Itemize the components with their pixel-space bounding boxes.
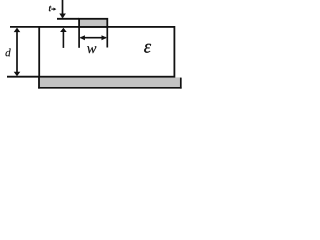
w dimension right extension line (strip right edge continued): [106, 27, 108, 48]
strip-top extension line (for t dimension): [57, 18, 79, 20]
w dimension left extension line (strip left edge continued): [78, 27, 80, 48]
d dimension line with arrows: [14, 28, 21, 77]
t dimension lower arrow (points up at strip bottom): [60, 28, 67, 48]
label w: [87, 46, 96, 53]
w dimension double arrow: [80, 35, 107, 40]
ground plane (gray bar): [38, 77, 181, 89]
substrate-bottom extension line to the left (for d dimension): [7, 76, 39, 78]
t dimension upper arrow (points down at strip top): [59, 0, 66, 18]
label d: [6, 49, 11, 57]
label epsilon (permittivity): [144, 44, 151, 53]
conductor strip: [79, 19, 107, 27]
label t with leader arrow: [49, 6, 56, 11]
substrate (dielectric) rectangle: [39, 27, 174, 77]
substrate-top extension line to the left (for d dimension): [10, 26, 39, 28]
